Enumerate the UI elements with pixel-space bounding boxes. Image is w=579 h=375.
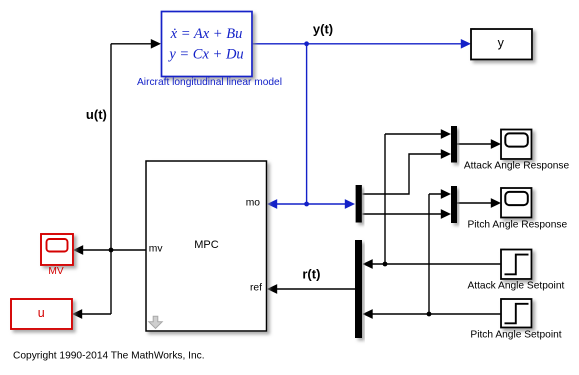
arrowhead blue into demux [345, 199, 355, 209]
svg-text:r(t): r(t) [302, 266, 320, 281]
junction node mo [304, 202, 309, 207]
arrowhead into MV scope [73, 245, 83, 255]
Attack Angle Response scope block [501, 130, 532, 160]
MPC block [146, 161, 267, 331]
svg-text:MV: MV [48, 266, 63, 277]
state-space plant block [162, 12, 253, 77]
attack step icon [505, 255, 529, 275]
wire demux out1 to attack mux input2 [363, 154, 447, 194]
attack scope screen icon [505, 133, 528, 146]
svg-text:u(t): u(t) [86, 107, 107, 122]
arrowhead into u outport [72, 309, 82, 319]
svg-text:Copyright 1990-2014 The MathWo: Copyright 1990-2014 The MathWorks, Inc. [13, 350, 205, 361]
svg-text:mo: mo [246, 198, 261, 209]
svg-text:Attack Angle Setpoint: Attack Angle Setpoint [467, 281, 564, 292]
mask badge gray down arrow [149, 316, 162, 328]
svg-text:u: u [38, 306, 45, 320]
y outport block [471, 29, 532, 60]
attack mux bar [451, 126, 457, 163]
wire demux out2 to pitch mux input2 [363, 213, 447, 215]
svg-text:ref: ref [250, 282, 262, 293]
arrowhead blue into y outport [461, 39, 471, 49]
MV scope block [41, 234, 73, 265]
junction attack setpoint node [383, 262, 388, 267]
wire attack setpoint to ref mux and up to attack mux input1 [367, 134, 501, 264]
wire u(t) vertical trunk from mv junction up to plant input [76, 44, 156, 314]
junction pitch setpoint node [427, 312, 432, 317]
MV scope screen icon [47, 239, 68, 252]
Attack Angle Setpoint step block [501, 250, 532, 280]
pitch mux bar [451, 186, 457, 223]
svg-text:Aircraft longitudinal linear m: Aircraft longitudinal linear model [137, 77, 282, 88]
wire ref from mux to MPC ref [272, 288, 355, 290]
junction mv node [109, 248, 114, 253]
u outport block [11, 299, 72, 329]
wire mv from MPC to MV scope [77, 249, 146, 251]
svg-text:y = Cx + Du: y = Cx + Du [167, 47, 243, 63]
demux bar (blue input) [356, 185, 362, 223]
svg-text:y: y [498, 36, 505, 50]
svg-text:mv: mv [149, 243, 164, 254]
pitch scope screen icon [505, 192, 528, 205]
svg-text:MPC: MPC [194, 239, 219, 251]
wire y blue from plant output to y outport [252, 44, 466, 204]
arrowhead into plant [151, 39, 161, 49]
arrowhead blue into MPC mo [267, 199, 277, 209]
pitch step icon [505, 304, 529, 324]
svg-text:ẋ = Ax + Bu: ẋ = Ax + Bu [170, 26, 243, 42]
svg-text:Pitch Angle Response: Pitch Angle Response [467, 220, 567, 231]
Pitch Angle Response scope block [501, 188, 532, 218]
svg-text:y(t): y(t) [313, 22, 333, 37]
svg-text:Attack Angle Response: Attack Angle Response [464, 161, 570, 172]
wire attack mux out to attack scope [457, 143, 496, 145]
Pitch Angle Setpoint step block [501, 299, 532, 328]
wire pitch setpoint to ref mux and up to pitch mux input1 [367, 194, 501, 314]
ref mux bar [355, 240, 362, 338]
junction node y(t) [304, 41, 309, 46]
svg-text:Pitch Angle Setpoint: Pitch Angle Setpoint [470, 330, 561, 341]
wire pitch mux out to pitch scope [457, 202, 496, 204]
